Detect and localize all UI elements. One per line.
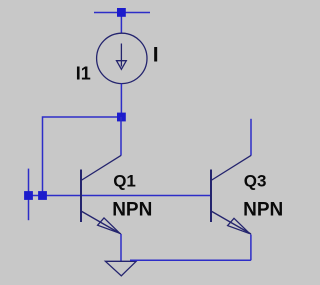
- wire base rail: [29, 195, 212, 197]
- node VCC: [117, 8, 126, 17]
- node A: [117, 113, 126, 122]
- wire: [43, 117, 122, 196]
- wire Q3 collector: [250, 119, 252, 156]
- svg-text:NPN: NPN: [243, 200, 283, 221]
- transistor Q3: [211, 155, 251, 234]
- svg-text:Q1: Q1: [113, 172, 136, 191]
- wire stub: [28, 169, 30, 221]
- node B2: [38, 191, 47, 200]
- svg-text:I1: I1: [76, 64, 91, 84]
- node B1: [24, 191, 33, 200]
- wire: [120, 13, 122, 34]
- current source I1: [97, 33, 147, 83]
- svg-text:Q3: Q3: [244, 172, 267, 191]
- svg-text:NPN: NPN: [112, 200, 152, 221]
- wire Q3 emitter: [250, 234, 252, 260]
- ground: [105, 261, 136, 276]
- wire Q1 emitter: [120, 234, 122, 262]
- transistor Q1: [81, 155, 121, 234]
- wire ground rail: [130, 259, 251, 261]
- svg-text:I: I: [153, 44, 159, 67]
- power rail: [94, 12, 150, 14]
- wire: [120, 84, 122, 117]
- wire Q1 collector: [120, 117, 122, 156]
